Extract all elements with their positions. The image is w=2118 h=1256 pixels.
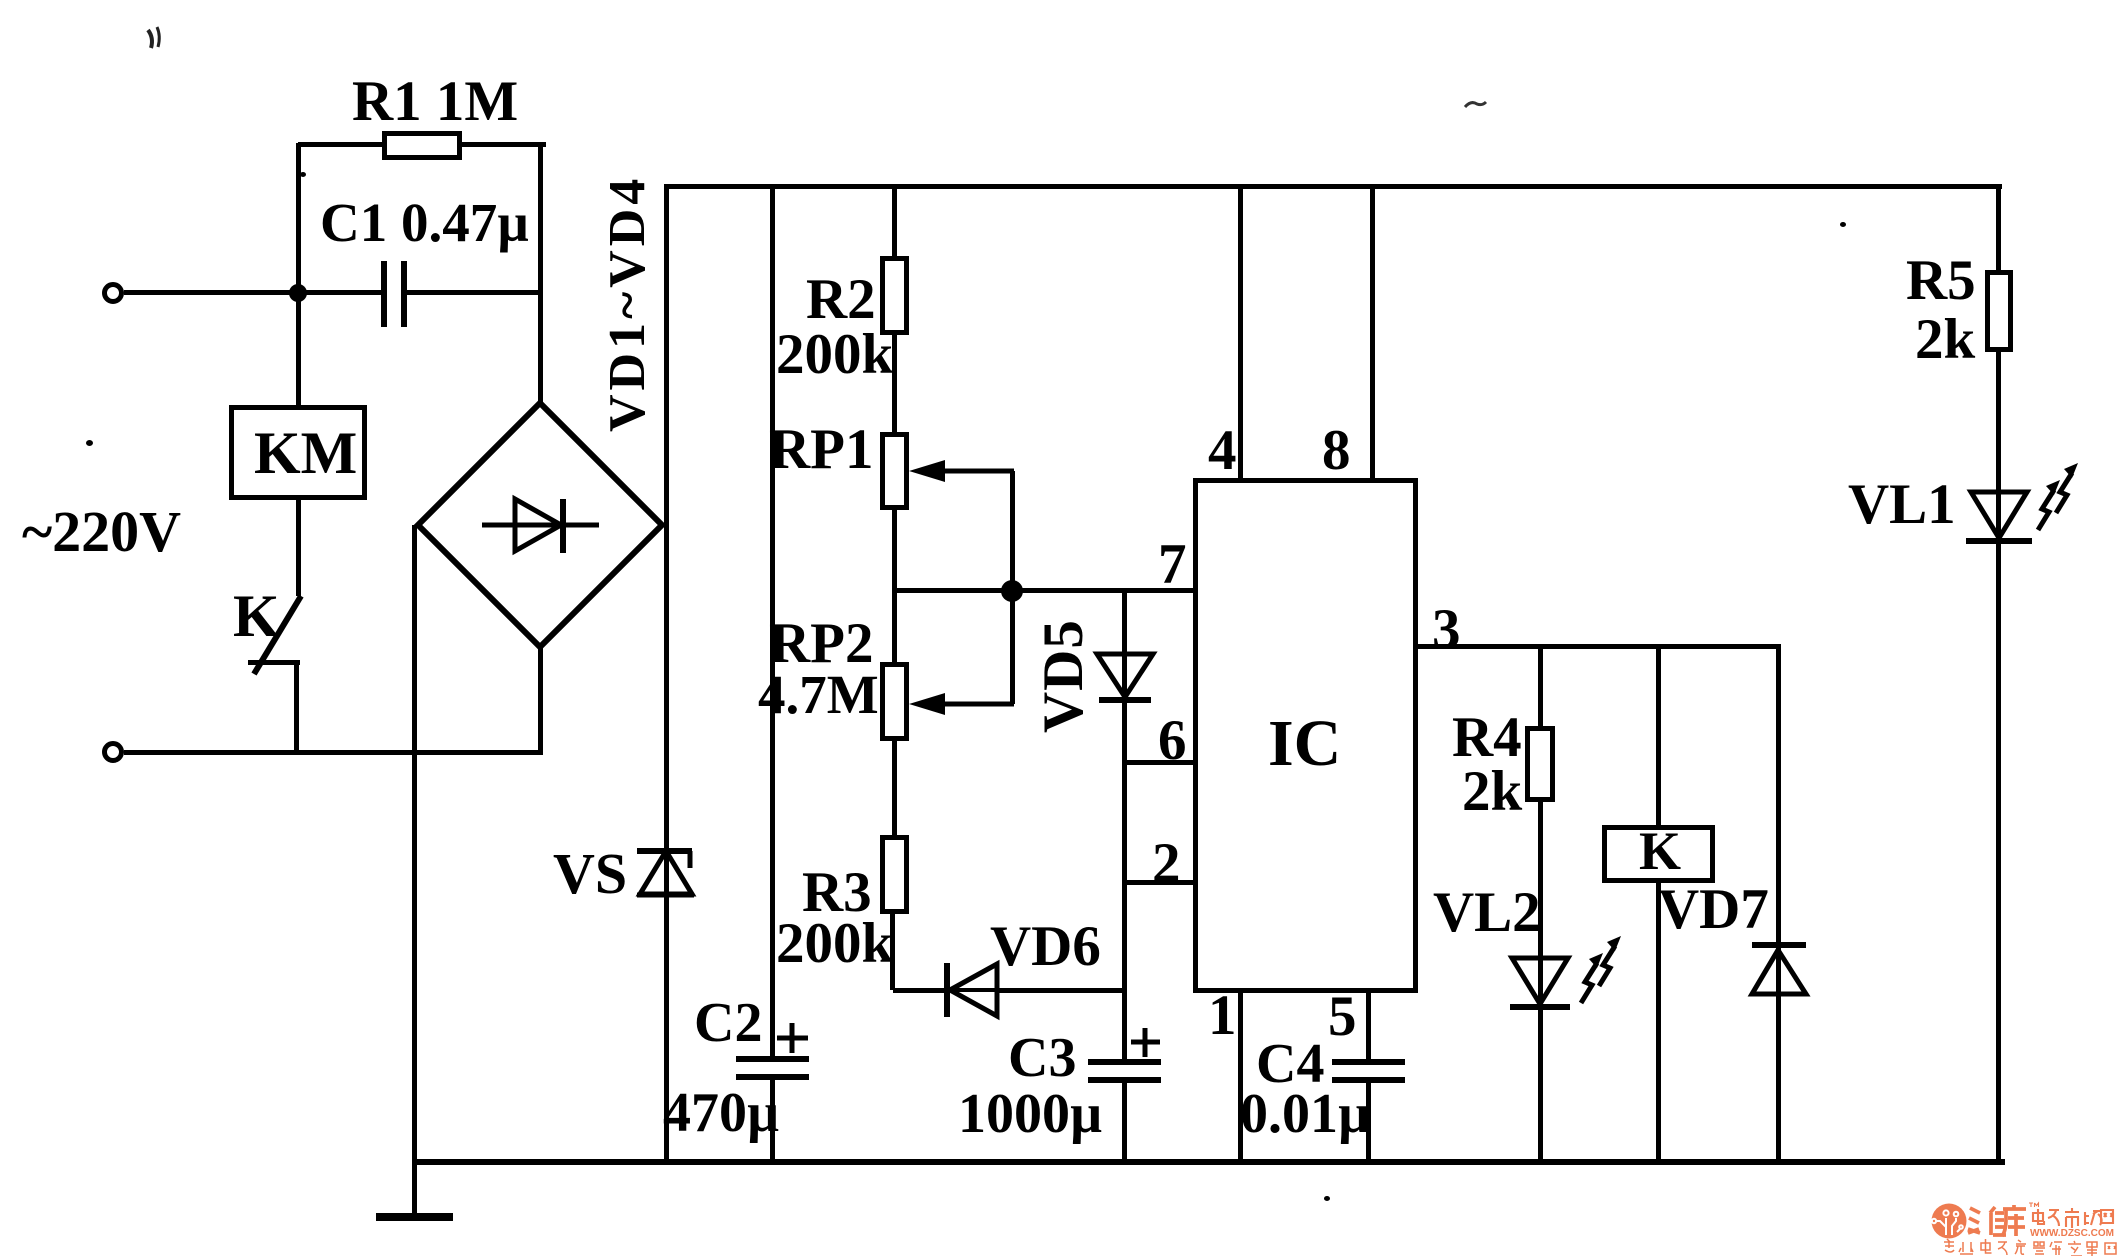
label 2k R4 [1462,763,1522,820]
wire top positive bus [664,184,2002,189]
wire VD5 to C3 [1122,700,1127,1060]
wire C2 branch from top bus [770,186,775,1059]
potentiometer RP2 [880,662,909,741]
label 470u [663,1085,779,1141]
wire right rail top [1996,186,2001,270]
label K relay [1639,824,1681,878]
switch K blade and contact [240,590,310,685]
label C1 0.47u [320,195,529,250]
wire C4 to bottom bus [1366,1083,1371,1162]
wire left rail from top bus to bottom bus [664,186,669,1162]
svg-text:WWW.DZSC.COM: WWW.DZSC.COM [2030,1228,2114,1239]
pin 8 [1322,422,1351,479]
wire switch lower contact [248,660,300,665]
wire node A down to KM [296,293,301,405]
label R2 [806,271,876,328]
resistor R1 [382,131,462,160]
wire bottom ground bus [412,1159,2005,1165]
zener diode VS [630,840,700,905]
wire VD6 line left [893,988,950,993]
label 1000u [958,1086,1102,1142]
wire C2 to bottom bus [770,1080,775,1162]
speck [300,172,306,177]
wire R2 to RP1 [892,335,897,433]
op-amp U1 IC box [1193,478,1418,993]
speck [1463,98,1487,112]
pin 5 [1328,988,1357,1045]
relay coil KM [229,405,367,500]
wire RP1 wiper down to node B [1010,471,1015,591]
label RP1 [769,421,873,478]
wire IC pin 2 lead [1125,880,1196,885]
label RP2 [769,615,873,672]
label C2 [694,995,762,1051]
terminal lower AC input [102,741,124,763]
resistor R2 [880,256,909,335]
label 200k R3 [776,915,893,972]
wire IC pin 6 lead [1125,760,1196,765]
wire VD7 to bottom bus [1776,994,1781,1162]
wire VL2 to bottom bus [1538,1007,1543,1162]
wire pin3 to R4 [1538,647,1543,726]
wire pin3 to VD7 [1776,647,1781,996]
label R1 1M [352,73,518,130]
diode VD7 [1740,935,1820,1005]
wire IC pin 4 to top bus [1238,186,1243,478]
wire bridge bottom vertex to AC bus [538,647,543,752]
resistor R5 [1985,270,2013,352]
wire bridge left vertex down to ground [412,525,417,1219]
node B junction [1001,580,1023,602]
label KM [254,423,357,483]
capacitor C4 [1325,1050,1415,1090]
wire R5 to VL1 [1996,352,2001,543]
potentiometer RP1 [880,432,909,510]
label VD7 [1658,881,1769,938]
wire node B line to IC pin 7 [894,588,1196,593]
bridge rectifier VD1~VD4 [405,390,675,660]
ground [376,1213,453,1221]
label C4 [1256,1036,1324,1092]
label R5 [1906,252,1976,309]
pin 6 [1158,712,1187,769]
diode VD5 [1085,640,1165,715]
diode VD6 [930,950,1020,1030]
speck [1324,1196,1330,1201]
speck [86,440,93,446]
label R3 [802,864,872,921]
wire IC pin 3 lead [1418,644,1781,649]
resistor R4 [1525,726,1555,802]
wire R1 right lead [462,142,546,147]
wire node B down to VD5 [1122,591,1127,702]
wire lower AC bus to bridge bottom [124,750,543,755]
capacitor C1 [378,258,412,330]
wire pin3 to relay K [1656,647,1661,825]
label 200k R2 [776,326,893,383]
wire C1 right plate to right branch [407,290,541,295]
wire node A to C1 left plate [300,290,383,295]
wire relay K to bottom bus [1656,883,1661,1162]
wire KM to switch K [296,500,301,596]
label VD6 [990,918,1101,975]
wire R1 right down to C1/bridge top [538,143,543,404]
label 4.7M [758,667,879,722]
wire RP1 to RP2 [892,510,897,663]
wire R1 left lead [298,142,382,147]
wire R3 down to VD6 line [890,914,895,990]
wire RP2 wiper up to node B [1010,591,1015,704]
pin 4 [1208,422,1237,479]
label R4 [1452,709,1522,766]
label 0.01u [1240,1086,1370,1142]
wire VL1 to bottom bus [1996,541,2001,1162]
wire RP2 to R3 [892,741,897,835]
wiper arrow RP2 [905,690,1020,720]
label IC [1268,711,1341,777]
label 2k R5 [1915,311,1975,368]
terminal upper AC input [102,282,124,304]
wire VD6 line right to C3 branch [997,988,1127,993]
wire IC pin 1 to bottom bus [1238,993,1243,1162]
label VS [553,845,627,903]
label K switch [233,586,280,646]
relay K [1602,825,1715,883]
capacitor C2 polarized [730,1015,820,1085]
wire chain from top bus to R2 [892,186,897,256]
LED VL1 [1950,470,2095,550]
pin 2 [1152,835,1181,892]
wiper arrow RP1 [905,455,1020,485]
label C3 [1008,1030,1076,1086]
resistor R3 [880,835,909,914]
label ~220V [22,503,181,561]
pin 3 [1432,601,1461,658]
speck [140,25,170,70]
label VL2 [1433,884,1541,941]
wire node A up to R1 left [296,143,301,293]
pin 7 [1158,536,1187,593]
wire IC pin 5 to C4 [1366,993,1371,1060]
wire IC pin 8 to top bus [1370,186,1375,478]
watermark logo and text [1925,1195,2118,1256]
wire C3 to bottom bus [1122,1083,1127,1162]
node A junction [289,284,307,302]
pin 1 [1208,987,1237,1044]
LED VL2 [1495,940,1640,1015]
label VL1 [1848,476,1956,533]
wire R4 to VL2 [1538,801,1543,1009]
label VD1~VD4 [602,175,654,432]
wire upper terminal to node A [124,290,300,295]
wire switch down to lower AC bus [294,662,299,754]
capacitor C3 polarized [1080,1020,1170,1090]
label VD5 [1035,619,1092,733]
speck [1840,222,1846,227]
